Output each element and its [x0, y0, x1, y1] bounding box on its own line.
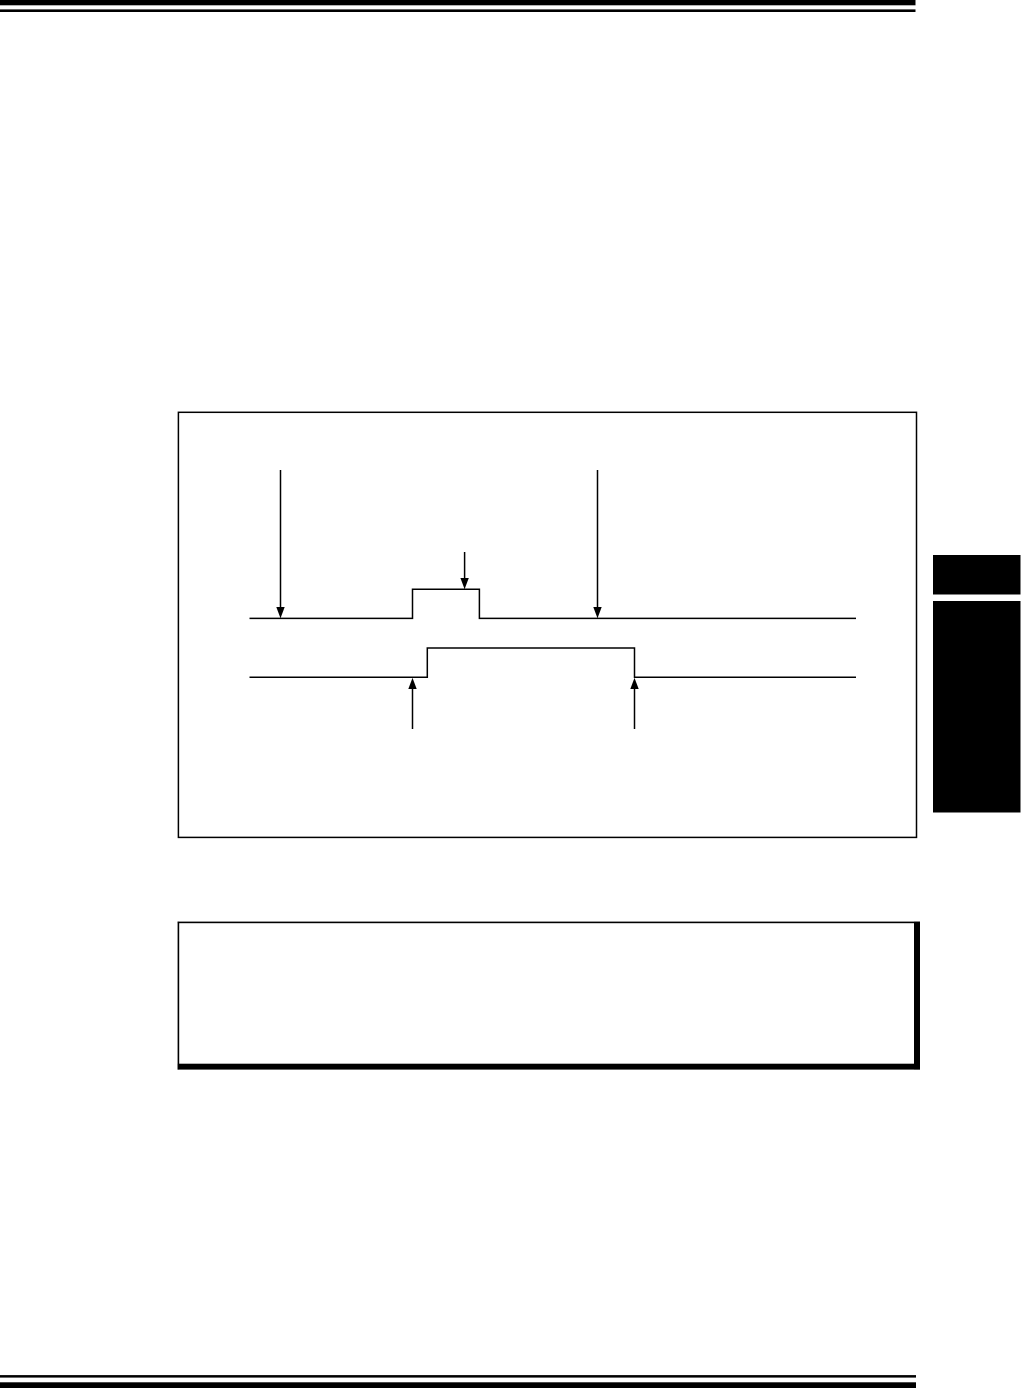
side tab 2: [933, 601, 1021, 813]
figure frame box: [178, 412, 916, 837]
up arrow 1 (at rising edge): [408, 678, 416, 729]
waveform 1 (upper signal with short pulse): [250, 589, 857, 618]
side tab 1: [933, 555, 1021, 595]
footer thick rule: [0, 1382, 916, 1388]
short down arrow onto pulse top: [460, 552, 468, 589]
header thick rule: [0, 0, 916, 5]
note box (thin top/left, thick right/bottom): [178, 922, 920, 1070]
up arrow 2 (at falling edge): [630, 678, 638, 729]
waveform 2 (lower signal with long pulse): [250, 648, 857, 677]
long down arrow 1: [276, 470, 284, 618]
header thin rule: [0, 9, 916, 12]
footer thin rule: [0, 1375, 916, 1378]
long down arrow 2: [593, 470, 601, 618]
